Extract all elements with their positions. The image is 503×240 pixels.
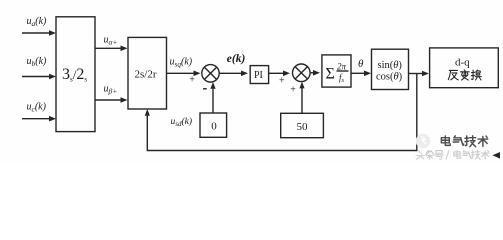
svg-text:θ: θ [358, 58, 364, 70]
wire input ub [22, 76, 50, 78]
svg-text:+: + [279, 75, 285, 86]
svg-text:e(k): e(k) [227, 53, 246, 65]
wire 2s/2r to sum1 [167, 72, 195, 74]
svg-text:cos(θ): cos(θ) [376, 72, 403, 83]
svg-text:50: 50 [297, 121, 309, 133]
svg-text:3s/2s: 3s/2s [62, 66, 87, 84]
block 3s/2s [56, 17, 95, 132]
svg-text:0: 0 [211, 120, 217, 132]
block PI [250, 66, 268, 84]
wire sincos to dq [409, 73, 424, 75]
svg-text:usd(k): usd(k) [171, 116, 193, 128]
watermark dianqijishu (electrical technology) [441, 136, 487, 147]
wire input uc [22, 118, 50, 120]
svg-text:2s/2r: 2s/2r [135, 69, 157, 81]
svg-text:+: + [189, 75, 195, 86]
block 0 [200, 113, 227, 137]
wire PI to sum2 [269, 72, 284, 74]
svg-text:usq(k): usq(k) [170, 57, 193, 69]
svg-text:sin(θ): sin(θ) [378, 60, 403, 71]
svg-text:2π: 2π [337, 62, 347, 72]
minus sign sum1 [203, 88, 207, 90]
block sigma 2pi/fs [322, 55, 351, 87]
small left arrow bottom right [493, 152, 501, 159]
svg-text:uc(k): uc(k) [27, 102, 47, 114]
feedback wire from theta junction [147, 74, 417, 151]
wire sum2 to sigma [310, 72, 314, 74]
svg-text:ua(k): ua(k) [27, 16, 48, 28]
watermark logo [416, 134, 431, 149]
block 50 [281, 113, 324, 137]
wire u beta+ [95, 99, 122, 101]
block d-q inverse transform [430, 48, 499, 88]
summing junction 2 [293, 64, 311, 82]
label fanbianhuan (inverse transform) [448, 70, 481, 80]
block sin/cos [372, 49, 409, 89]
svg-text:Σ: Σ [326, 66, 335, 83]
block 2s/2r [128, 37, 167, 109]
wire 50 box to sum2 [301, 87, 303, 114]
summing junction 1 [202, 65, 219, 82]
wire sigma to sincos [351, 72, 365, 74]
svg-text:d-q: d-q [455, 57, 470, 69]
watermark toutiaohao / dianqijishu [416, 150, 489, 159]
svg-text:+: + [290, 85, 296, 96]
svg-text:ub(k): ub(k) [27, 56, 48, 68]
wire input ua [22, 32, 50, 34]
wire sum1 to PI [219, 72, 242, 74]
wire u alpha+ [95, 47, 122, 49]
svg-text:PI: PI [254, 70, 263, 81]
wire 0 box to sum1 [212, 87, 214, 113]
